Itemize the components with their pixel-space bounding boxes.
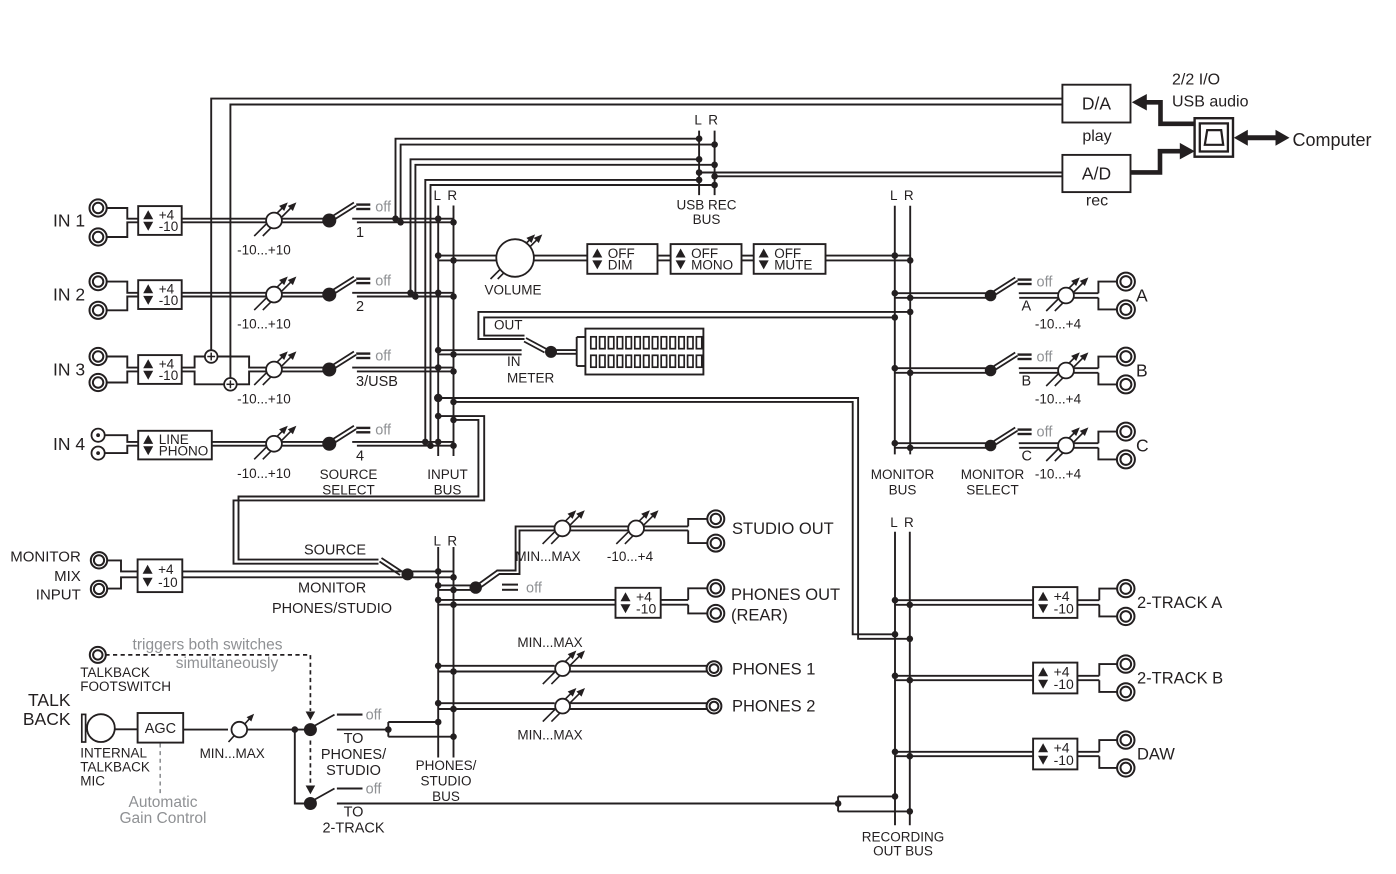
jack monitor output C R (1117, 450, 1135, 468)
node junction on USB REC BUS R (A/D feed) (711, 173, 718, 180)
node junction IN1 R on USB REC BUS (711, 141, 718, 148)
svg-text:rec: rec (1086, 193, 1108, 210)
node junction phones/studio bus R (PHONES 1) (450, 668, 457, 675)
box IN 4 LINE/PHONO level switch (138, 431, 212, 460)
pot studio out level MIN...MAX (515, 510, 584, 564)
jack IN 1 L (90, 199, 107, 216)
node junction IN 3 L on input bus (435, 364, 442, 371)
node summing junction IN3 R (+) (224, 378, 237, 391)
node summing junction IN3 L (+) (205, 350, 218, 363)
wire talkback pot to switches (247, 729, 304, 731)
svg-text:R: R (904, 188, 914, 203)
label Computer (1293, 130, 1372, 150)
svg-text:FOOTSWITCH: FOOTSWITCH (80, 679, 171, 694)
jack MONITOR MIX INPUT L (91, 552, 107, 568)
node junction phones/studio bus R (PHONES 2) (450, 706, 457, 713)
wire IN 1 box to trim pot (182, 219, 266, 223)
bus RECORDING OUT BUS L/R vertical lines with labels (862, 515, 945, 859)
svg-text:BACK: BACK (23, 709, 71, 729)
wire talkback to phones/studio bus with splitter (337, 722, 454, 737)
svg-text:INPUT: INPUT (36, 586, 81, 603)
svg-text:-10...+10: -10...+10 (237, 392, 291, 407)
svg-text:IN 4: IN 4 (53, 434, 85, 454)
svg-text:-10: -10 (159, 368, 179, 383)
svg-text:off: off (375, 199, 392, 215)
pot PHONES 1 level MIN...MAX (517, 635, 585, 684)
svg-text:TALK: TALK (28, 690, 71, 710)
jack monitor output C L (1117, 423, 1135, 441)
wire IN 3 box to summing nodes (stepped pair) (182, 357, 266, 385)
label triggers both switches simultaneously (gray) (133, 636, 283, 672)
svg-text:C: C (1136, 436, 1149, 456)
svg-text:TALKBACK: TALKBACK (80, 665, 150, 680)
box DIM switch (587, 244, 657, 274)
wire monitor bus to select switch A (895, 293, 986, 298)
svg-text:PHONES OUT: PHONES OUT (731, 586, 840, 604)
svg-text:C: C (1022, 449, 1032, 465)
svg-text:off: off (375, 348, 392, 364)
svg-text:PHONES/STUDIO: PHONES/STUDIO (272, 601, 392, 617)
display level meter LED bargraph (585, 329, 703, 375)
svg-text:SELECT: SELECT (322, 483, 375, 498)
wire IN4 L to USB REC BUS (425, 180, 699, 442)
wire phones/studio bus to PHONES 2 pot (438, 703, 555, 709)
jack PHONES OUT REAR R (707, 605, 724, 622)
node junction IN 4 L to USB rec feed (422, 439, 429, 446)
svg-text:L: L (434, 188, 442, 203)
box D/A converter (1062, 85, 1130, 123)
svg-text:2-TRACK A: 2-TRACK A (1137, 594, 1222, 612)
wire input bus to VOLUME knob (438, 256, 497, 261)
svg-text:MIN...MAX: MIN...MAX (200, 746, 265, 761)
jack DAW L (1117, 731, 1134, 748)
node junction phones/studio bus L (mix in) (435, 568, 442, 575)
svg-text:SELECT: SELECT (966, 483, 1019, 498)
label TO 2-TRACK (322, 805, 384, 837)
svg-text:2-TRACK B: 2-TRACK B (1137, 670, 1223, 688)
svg-text:1: 1 (356, 225, 364, 241)
svg-text:A: A (1136, 286, 1148, 306)
jack IN 1 R (90, 228, 107, 245)
node junction phones/studio bus L (talkback) (435, 719, 442, 726)
svg-text:play: play (1082, 128, 1111, 145)
node junction IN 1 L to USB rec feed (392, 215, 399, 222)
node junction talkback branch (292, 726, 299, 733)
svg-text:B: B (1136, 361, 1148, 381)
label STUDIO OUT (732, 520, 834, 538)
box 2-TRACK B +4/-10 level (1033, 663, 1077, 694)
node junction monitor bus R (OUT tap) (907, 309, 914, 316)
svg-text:L: L (694, 113, 702, 128)
svg-text:off: off (375, 423, 392, 439)
svg-text:PHONES/: PHONES/ (321, 747, 387, 763)
svg-text:off: off (1037, 424, 1054, 440)
jack IN 2 R (90, 302, 107, 319)
wire trim pot A to output jacks (1074, 282, 1117, 310)
label switch position 2 (356, 299, 364, 315)
wire IN 3 pot to source select switch (282, 368, 326, 372)
label contact C (1022, 449, 1032, 465)
box IN 1 +4/-10 level switch (138, 206, 182, 235)
wire studio MIN pot to trim pot (570, 526, 628, 530)
label output C (1136, 436, 1149, 456)
svg-text:MONITOR: MONITOR (10, 548, 81, 565)
node junction monitor bus R (select B) (907, 370, 914, 377)
trim pot monitor A -10...+4 (1035, 277, 1088, 331)
wire footswitch dashed trigger line to both switches (105, 655, 315, 794)
svg-text:MIC: MIC (80, 774, 105, 789)
wire IN 2 jacks to level box (107, 282, 139, 311)
wire monitor mix jacks to level box (107, 560, 138, 588)
jack 2-TRACK A L (1117, 580, 1134, 597)
svg-text:-10: -10 (159, 219, 179, 234)
wire IN 2 pot to source select switch (282, 293, 326, 297)
jack monitor output B L (1117, 348, 1135, 366)
svg-text:-10: -10 (158, 575, 178, 590)
box MONO switch (671, 244, 742, 274)
label MONITOR SELECT (961, 467, 1025, 498)
svg-text:triggers both switches: triggers both switches (133, 636, 283, 653)
bus INPUT BUS L/R vertical lines with labels (427, 188, 468, 498)
wire DAW box to jacks (1077, 740, 1117, 768)
jack DAW R (1117, 759, 1134, 776)
svg-text:PHONES 1: PHONES 1 (732, 661, 815, 679)
wire IN4 R to USB REC BUS (431, 185, 715, 446)
wire OUT tap from monitor bus to meter switch (loop) (478, 312, 910, 339)
svg-text:-10...+4: -10...+4 (1035, 317, 1082, 332)
svg-text:AGC: AGC (145, 721, 176, 737)
svg-text:A/D: A/D (1082, 164, 1111, 184)
label switch position 1 (356, 225, 364, 241)
svg-text:-10...+4: -10...+4 (607, 549, 654, 564)
node junction input bus R (source loop) (450, 417, 457, 424)
svg-text:STUDIO: STUDIO (326, 763, 381, 779)
svg-text:INTERNAL: INTERNAL (80, 746, 147, 761)
label SOURCE SELECT (320, 467, 378, 498)
jack MONITOR MIX INPUT R (91, 581, 107, 597)
jack 2-TRACK B L (1117, 655, 1134, 672)
node junction recording bus R (2-TRACK A) (907, 602, 914, 609)
svg-text:IN 1: IN 1 (53, 211, 85, 231)
svg-text:D/A: D/A (1082, 94, 1112, 114)
node junction phones/studio bus R (phones rear) (450, 601, 457, 608)
trim pot IN 3 -10...+10 (237, 351, 296, 406)
svg-text:off: off (1037, 349, 1054, 365)
jack 2-TRACK A R (1117, 608, 1134, 625)
svg-text:A: A (1022, 299, 1032, 315)
wire studio out switch up to level pots (497, 526, 555, 574)
node junction input bus L (source loop) (435, 413, 442, 420)
svg-text:METER: METER (507, 371, 555, 386)
wire phones/studio bus to PHONES 1 pot (438, 666, 555, 672)
svg-text:R: R (904, 515, 914, 530)
node junction IN 3 R on input bus (450, 368, 457, 375)
node junction phones/studio bus L (studio out) (435, 582, 442, 589)
svg-text:IN 3: IN 3 (53, 360, 85, 380)
node junction recording bus L (2-TRACK A) (892, 597, 899, 604)
wire IN 2 box to trim pot (182, 293, 266, 297)
wire D/A playback L to IN3 summing node (211, 99, 1062, 351)
node junction monitor bus R (select C) (907, 445, 914, 452)
jack IN 4 R (RCA) (92, 447, 105, 460)
svg-text:off: off (366, 781, 383, 797)
svg-text:STUDIO OUT: STUDIO OUT (732, 520, 834, 538)
node junction IN4 L on USB REC BUS (696, 177, 703, 184)
node junction talkback splitter (385, 726, 392, 733)
svg-text:2: 2 (356, 299, 364, 315)
label MONITOR (source position) (298, 581, 366, 597)
jack 2-TRACK B R (1117, 683, 1134, 700)
svg-text:VOLUME: VOLUME (484, 283, 541, 298)
wire 2-TRACK A box to jacks (1077, 589, 1117, 617)
node junction IN 1 R to USB rec feed (397, 219, 404, 226)
wire mic to AGC box (115, 728, 138, 730)
node junction IN 2 L to USB rec feed (407, 290, 414, 297)
svg-text:-10...+4: -10...+4 (1035, 392, 1082, 407)
wire MUTE to monitor bus (826, 256, 911, 261)
node junction input bus R (IN tap) (450, 351, 457, 358)
svg-text:R: R (447, 534, 457, 549)
label TO PHONES/STUDIO (321, 731, 387, 779)
label TALKBACK FOOTSWITCH (80, 665, 171, 694)
wire IN1 R to USB REC BUS (401, 145, 715, 223)
svg-text:SOURCE: SOURCE (320, 467, 378, 482)
switch talkback TO PHONES/STUDIO (off) (304, 708, 383, 737)
svg-text:L: L (890, 515, 898, 530)
node junction input bus L (volume feed) (435, 252, 442, 259)
label contact B (1022, 374, 1032, 390)
box IN 3 +4/-10 level switch (138, 355, 182, 384)
jack PHONES 2 (707, 699, 722, 714)
svg-text:4: 4 (356, 448, 364, 464)
wire IN 4 box to trim pot (212, 442, 266, 446)
node junction input bus L (IN tap) (435, 347, 442, 354)
wire USB REC BUS L to A/D converter (699, 172, 1062, 174)
label 2-TRACK B (1137, 670, 1223, 688)
wire IN2 R to USB REC BUS (415, 165, 714, 297)
wire trim pot B to output jacks (1074, 357, 1117, 385)
wire DIM to MONO box (658, 256, 671, 261)
jack IN 3 R (90, 374, 107, 391)
switch IN 4 source select (off) (322, 423, 392, 451)
node junction input bus L (rec feed) (434, 394, 442, 402)
label contact A (1022, 299, 1032, 315)
node junction input bus R (volume feed) (450, 257, 457, 264)
wire phones/studio bus to studio out switch (438, 585, 471, 590)
svg-text:2/2 I/O: 2/2 I/O (1172, 72, 1220, 89)
node junction 2-track splitter (835, 800, 842, 807)
wire AGC dashed leader (gray) (159, 744, 161, 796)
wire IN2 L to USB REC BUS (411, 159, 700, 292)
svg-text:MONITOR: MONITOR (871, 467, 935, 482)
svg-text:USB REC: USB REC (676, 198, 736, 213)
label 2/2 I/O USB audio (1172, 72, 1249, 111)
svg-text:-10: -10 (1054, 676, 1074, 692)
label IN METER (507, 354, 555, 386)
svg-text:-10: -10 (159, 293, 179, 308)
svg-text:DAW: DAW (1137, 746, 1175, 764)
wire talkback branch down to 2-track switch (295, 730, 305, 804)
jack monitor output B R (1117, 375, 1135, 393)
node junction recording bus L (2-TRACK B) (892, 673, 899, 680)
jack PHONES 1 (707, 661, 722, 676)
svg-text:MIN...MAX: MIN...MAX (515, 549, 580, 564)
wire phones rear box to jacks (661, 588, 708, 613)
svg-text:-10: -10 (1054, 601, 1074, 617)
wire input bus to recording out bus (438, 398, 910, 639)
trim pot monitor B -10...+4 (1035, 352, 1088, 406)
mic INTERNAL TALKBACK MIC (82, 714, 115, 742)
node junction recording bus L (talkback) (892, 793, 899, 800)
wire IN1 L to USB REC BUS (396, 139, 700, 219)
label INTERNAL TALKBACK MIC (80, 746, 150, 789)
bus USB REC BUS L/R vertical lines with labels (676, 113, 736, 228)
svg-text:PHONES/: PHONES/ (416, 758, 477, 773)
svg-text:-10: -10 (1054, 752, 1074, 768)
wire PHONES 1 pot to jack (570, 666, 707, 672)
node junction monitor bus R (chain in) (907, 257, 914, 264)
label 2-TRACK A (1137, 594, 1222, 612)
node junction phones/studio bus R (talkback) (450, 733, 457, 740)
svg-text:INPUT: INPUT (427, 467, 468, 482)
arrow A/D to USB audio (thick) (1131, 143, 1195, 173)
wire IN 2 switch output to input bus (352, 293, 453, 297)
jack TALKBACK FOOTSWITCH (90, 647, 106, 663)
node junction monitor bus L (select B) (892, 365, 899, 372)
node junction monitor bus R (select A) (907, 295, 914, 302)
label PHONES OUT (REAR) (731, 586, 840, 625)
wire IN 3 switch output to input bus (352, 368, 453, 372)
node junction IN 2 R to USB rec feed (412, 293, 419, 300)
svg-text:BUS: BUS (432, 789, 460, 804)
switch monitor select B (off) (985, 349, 1054, 376)
bus MONITOR BUS L/R vertical lines with labels (871, 188, 935, 498)
box PHONES OUT REAR +4/-10 (616, 588, 661, 618)
wire recording bus to DAW box (895, 752, 1033, 756)
node junction IN4 R on USB REC BUS (711, 182, 718, 189)
svg-text:off: off (366, 708, 383, 724)
label IN 3 (53, 360, 85, 380)
wire phones/studio bus to phones out rear box (438, 600, 615, 605)
box A/D converter (1062, 155, 1130, 192)
svg-text:USB audio: USB audio (1172, 94, 1249, 111)
wire VOLUME to DIM box (533, 256, 587, 261)
trim pot IN 4 -10...+10 (237, 426, 296, 481)
node junction IN 4 R on input bus (450, 442, 457, 449)
trim pot monitor C -10...+4 (1035, 427, 1088, 481)
box AGC automatic gain control (138, 713, 184, 743)
jack STUDIO OUT L (707, 510, 724, 527)
wire monitor bus to select switch B (895, 368, 986, 373)
trim pot IN 2 -10...+10 (237, 277, 296, 332)
svg-text:IN 2: IN 2 (53, 285, 85, 305)
icon USB port (1195, 118, 1233, 157)
label MONITOR MIX INPUT (10, 548, 81, 603)
node junction IN 1 L on input bus (435, 215, 442, 222)
pot talkback level MIN...MAX (200, 714, 265, 761)
node junction phones/studio bus L (phones rear) (435, 597, 442, 604)
label IN 1 (53, 211, 85, 231)
jack IN 3 L (90, 348, 107, 365)
svg-text:RECORDING: RECORDING (862, 830, 945, 845)
svg-text:OUT: OUT (494, 318, 523, 333)
node junction monitor bus L (OUT tap) (892, 314, 899, 321)
wire IN 1 pot to source select switch (282, 219, 326, 223)
label play (1082, 128, 1111, 145)
wire 2-TRACK B box to jacks (1077, 664, 1117, 692)
jack IN 2 L (90, 273, 107, 290)
node junction IN 4 R to USB rec feed (427, 442, 434, 449)
box 2-TRACK A +4/-10 level (1033, 587, 1077, 618)
svg-text:TALKBACK: TALKBACK (80, 760, 150, 775)
node junction monitor bus L (chain in) (892, 252, 899, 259)
svg-text:IN: IN (507, 354, 521, 369)
wire select switch A to trim pot (1019, 293, 1058, 298)
label IN 4 (53, 434, 85, 454)
svg-text:MONITOR: MONITOR (961, 467, 1025, 482)
label switch position 4 (356, 448, 364, 464)
wire meter switch to meter display (557, 337, 586, 366)
svg-text:BUS: BUS (693, 212, 721, 227)
svg-text:(REAR): (REAR) (731, 607, 788, 625)
svg-text:DIM: DIM (608, 258, 633, 273)
svg-text:STUDIO: STUDIO (420, 773, 471, 788)
node junction recording bus L (DAW) (892, 749, 899, 756)
node junction IN1 L on USB REC BUS (696, 135, 703, 142)
switch meter OUT/IN selector (524, 338, 557, 358)
svg-text:R: R (708, 113, 718, 128)
arrow USB port to Computer (double headed thick) (1234, 130, 1290, 146)
wire recording bus to 2-TRACK B box (895, 676, 1033, 680)
svg-text:-10...+10: -10...+10 (237, 243, 291, 258)
wire IN 4 jacks to level box (106, 435, 139, 453)
label rec (1086, 193, 1108, 210)
label output A (1136, 286, 1148, 306)
svg-text:Computer: Computer (1293, 130, 1372, 150)
label PHONES 1 (732, 661, 815, 679)
svg-text:simultaneously: simultaneously (176, 655, 279, 672)
wire IN 1 jacks to level box (107, 208, 139, 237)
svg-text:R: R (447, 188, 457, 203)
wire PHONES 2 pot to jack (570, 703, 707, 709)
node junction phones/studio bus L (PHONES 1) (435, 663, 442, 670)
wire select switch C to trim pot (1019, 443, 1058, 448)
switch talkback TO 2-TRACK (off) (304, 781, 383, 810)
switch IN 2 source select (off) (322, 273, 392, 301)
svg-text:MIX: MIX (54, 568, 81, 585)
svg-text:Automatic: Automatic (129, 794, 198, 811)
jack monitor output A R (1117, 300, 1135, 318)
node junction recording bus L (rec feed) (892, 631, 899, 638)
node junction input bus R (rec feed) (450, 399, 457, 406)
knob VOLUME (484, 234, 542, 297)
bus PHONES/STUDIO BUS L/R vertical lines with labels (416, 534, 477, 804)
switch monitor select C (off) (985, 424, 1054, 451)
svg-text:TO: TO (344, 731, 364, 747)
wire MONO to MUTE box (742, 256, 754, 261)
trim pot studio out -10...+4 (607, 510, 659, 564)
wire IN 3 jacks to level box (107, 357, 139, 383)
wire recording bus to 2-TRACK A box (895, 600, 1033, 605)
svg-text:L: L (434, 534, 442, 549)
label TALK BACK (23, 690, 71, 729)
svg-text:OUT BUS: OUT BUS (873, 844, 933, 859)
svg-text:Gain Control: Gain Control (119, 810, 206, 827)
wire select switch B to trim pot (1019, 368, 1058, 373)
svg-text:PHONES 2: PHONES 2 (732, 698, 815, 716)
label PHONES 2 (732, 698, 815, 716)
node junction IN2 R on USB REC BUS (711, 162, 718, 169)
